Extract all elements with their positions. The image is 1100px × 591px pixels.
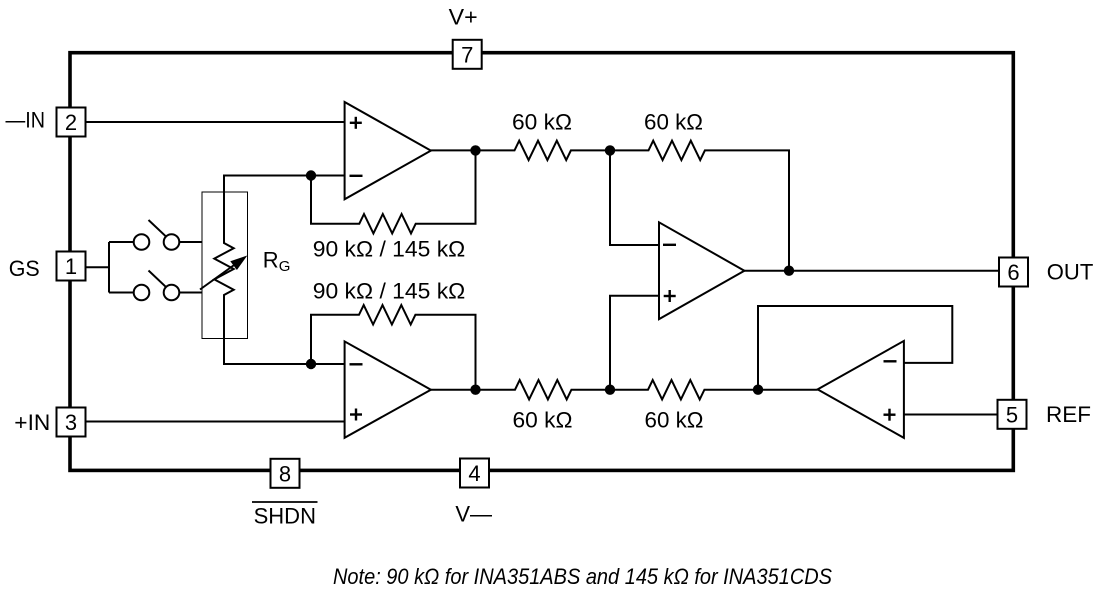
svg-text:SHDN: SHDN (254, 504, 316, 529)
svg-text:GS: GS (9, 256, 40, 281)
svg-text:8: 8 (279, 461, 291, 486)
svg-text:5: 5 (1006, 402, 1018, 427)
svg-text:V+: V+ (449, 5, 478, 30)
svg-text:7: 7 (461, 42, 473, 67)
svg-text:3: 3 (65, 410, 77, 435)
svg-text:REF: REF (1046, 402, 1091, 427)
svg-text:OUT: OUT (1047, 260, 1094, 285)
svg-text:V—: V— (455, 501, 492, 526)
svg-text:—IN: —IN (6, 107, 46, 132)
svg-text:1: 1 (65, 254, 77, 279)
svg-text:2: 2 (65, 110, 77, 135)
svg-text:RG: RG (263, 248, 291, 276)
svg-text:60 kΩ: 60 kΩ (512, 110, 572, 135)
svg-text:+IN: +IN (14, 410, 50, 435)
svg-text:60 kΩ: 60 kΩ (644, 110, 703, 135)
svg-text:90 kΩ / 145 kΩ: 90 kΩ / 145 kΩ (313, 236, 466, 261)
svg-text:90 kΩ / 145 kΩ: 90 kΩ / 145 kΩ (313, 279, 466, 304)
svg-text:4: 4 (468, 461, 480, 486)
svg-text:Note: 90 kΩ for INA351ABS and: Note: 90 kΩ for INA351ABS and 145 kΩ for… (333, 564, 832, 589)
svg-text:6: 6 (1007, 260, 1019, 285)
svg-text:60 kΩ: 60 kΩ (513, 408, 573, 433)
svg-text:60 kΩ: 60 kΩ (645, 408, 704, 433)
